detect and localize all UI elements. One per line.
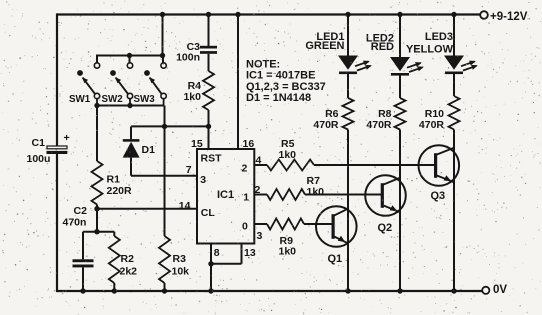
svg-text:470R: 470R — [366, 119, 392, 131]
svg-text:14: 14 — [179, 200, 191, 212]
svg-text:100u: 100u — [27, 153, 51, 165]
wire: left rail (C1 branch) — [56, 13, 58, 292]
switch SW2 — [102, 63, 133, 106]
IC U1 (IC1 4017BE) — [179, 138, 263, 259]
svg-text:GREEN: GREEN — [305, 40, 344, 52]
svg-text:YELLOW: YELLOW — [406, 44, 454, 56]
svg-text:C1: C1 — [32, 137, 46, 149]
wire: IC1 pins 8 and 13 to 0V — [208, 244, 241, 292]
resistor R10 470R — [419, 96, 460, 131]
wire: R5 to Q3 base — [314, 164, 437, 166]
wire: IC1 pin 2 output 1 — [254, 194, 267, 196]
svg-text:8: 8 — [214, 247, 220, 259]
wire: Q3 through-channel — [453, 146, 455, 186]
wire: Q3 emitter to 0V — [451, 183, 456, 294]
note text block — [246, 58, 326, 104]
resistor R6 470R — [313, 98, 353, 131]
wire: clock node to IC1 CL pin 14 — [94, 206, 197, 211]
svg-text:RED: RED — [371, 41, 394, 53]
svg-text:470n: 470n — [63, 217, 87, 229]
wire: IC1 pin 16 to +V — [235, 12, 240, 149]
wire: +V to LED2 — [397, 12, 402, 58]
wire: +V to LED3 — [451, 12, 456, 57]
svg-text:470R: 470R — [313, 119, 339, 131]
capacitor C1 100u electrolytic — [27, 132, 70, 165]
svg-text:100n: 100n — [176, 52, 200, 64]
transistor Q1 BC337 — [316, 206, 357, 265]
transistor Q2 BC337 — [365, 175, 406, 234]
wire: 0V bottom rail — [57, 290, 482, 292]
junction dots on 0V rail — [80, 288, 213, 293]
svg-text:0V: 0V — [493, 284, 507, 296]
svg-text:D1 = 1N4148: D1 = 1N4148 — [246, 92, 311, 104]
resistor R7 1k0 — [267, 175, 324, 200]
terminal +9-12V — [480, 11, 528, 23]
svg-text:10k: 10k — [172, 266, 190, 278]
wire: +9-12V top supply bus — [57, 13, 480, 15]
svg-text:Q3: Q3 — [431, 190, 446, 202]
wire: clock node RC branch — [83, 209, 114, 235]
wire: IC1 pin 4 output 2 — [254, 164, 267, 166]
svg-text:1k0: 1k0 — [279, 245, 297, 257]
resistor R5 1k0 — [267, 138, 314, 171]
capacitor C3 100n — [176, 15, 217, 64]
wire: switch common bus to RST — [94, 103, 164, 127]
svg-text:+: + — [64, 132, 70, 144]
capacitor C2 470n — [63, 205, 94, 291]
LED LED2 RED — [366, 33, 424, 76]
svg-text:R10: R10 — [425, 108, 444, 120]
junction dots on +V bus — [160, 12, 211, 17]
resistor R3 10k — [159, 126, 189, 291]
wire: Q1 through-channel — [347, 206, 349, 247]
svg-text:R3: R3 — [173, 253, 187, 265]
svg-text:13: 13 — [244, 247, 256, 259]
wire: LED1 cathode to R6 — [347, 74, 349, 99]
wire: LED3 cathode to R10 — [453, 74, 455, 97]
wire: LED2 cathode to R8 — [399, 75, 401, 98]
wire: R7 to Q2 base — [305, 194, 383, 196]
terminal 0V — [482, 284, 507, 296]
svg-text:1: 1 — [243, 191, 249, 203]
transistor Q3 BC337 — [419, 145, 460, 202]
svg-text:2: 2 — [242, 162, 248, 174]
resistor R8 470R — [366, 98, 405, 131]
wire: R9 to Q1 base — [304, 223, 334, 225]
svg-text:IC1 = 4017BE: IC1 = 4017BE — [246, 69, 315, 81]
svg-text:16: 16 — [243, 138, 255, 150]
svg-text:R2: R2 — [121, 253, 135, 265]
svg-text:R8: R8 — [378, 108, 392, 120]
resistor R9 1k0 — [267, 219, 304, 258]
wire: R6 to Q1 collector — [347, 130, 349, 207]
svg-text:1k0: 1k0 — [279, 149, 297, 161]
svg-text:2k2: 2k2 — [120, 266, 138, 278]
resistor R1 220R — [92, 106, 133, 209]
wire: R10 to Q3 collector — [453, 130, 455, 148]
wire: +V to switch contacts bus — [162, 15, 164, 56]
svg-text:470R: 470R — [419, 119, 445, 131]
resistor R2 2k2 — [109, 232, 137, 291]
svg-text:+9-12V: +9-12V — [490, 11, 528, 23]
switch SW1 — [69, 63, 100, 106]
svg-text:3: 3 — [257, 230, 263, 242]
svg-text:7: 7 — [186, 164, 192, 176]
wire: IC1 output 3 (pin 7) to D1 anode — [131, 175, 197, 177]
switch SW3 — [134, 63, 167, 106]
LED LED3 YELLOW — [406, 31, 478, 74]
svg-text:3: 3 — [200, 174, 206, 186]
svg-text:SW1: SW1 — [69, 94, 91, 105]
svg-text:1k0: 1k0 — [183, 91, 201, 103]
svg-text:1k0: 1k0 — [307, 186, 325, 198]
wire: Q2 emitter to 0V — [397, 213, 402, 294]
wire: RST node (pin 15) — [131, 124, 211, 129]
svg-text:SW2: SW2 — [102, 94, 124, 105]
svg-text:D1: D1 — [142, 144, 156, 156]
svg-text:15: 15 — [191, 138, 203, 150]
svg-text:R1: R1 — [107, 174, 121, 186]
wire: Q1 emitter to 0V — [345, 244, 350, 294]
resistor R4 1k0 — [183, 54, 214, 127]
wire: Q2 through-channel — [399, 175, 401, 216]
wire: IC1 pin 3 output 0 — [254, 223, 267, 225]
svg-text:IC1: IC1 — [217, 189, 234, 201]
LED LED1 GREEN — [305, 31, 371, 74]
svg-text:CL: CL — [201, 207, 216, 219]
svg-text:0: 0 — [242, 220, 248, 232]
svg-text:R6: R6 — [325, 108, 339, 120]
svg-text:Q1: Q1 — [328, 253, 343, 265]
wire: switch top contact bus — [97, 53, 165, 63]
svg-text:C2: C2 — [74, 205, 88, 217]
svg-text:Q2: Q2 — [378, 222, 393, 234]
wire: +V to LED1 — [345, 12, 350, 57]
wire: R8 to Q2 collector — [399, 130, 401, 177]
svg-text:LED3: LED3 — [425, 31, 453, 43]
diode D1 1N4148 — [123, 126, 155, 175]
svg-text:220R: 220R — [107, 185, 133, 197]
wire: IC1 pin 15 into box — [208, 126, 210, 149]
